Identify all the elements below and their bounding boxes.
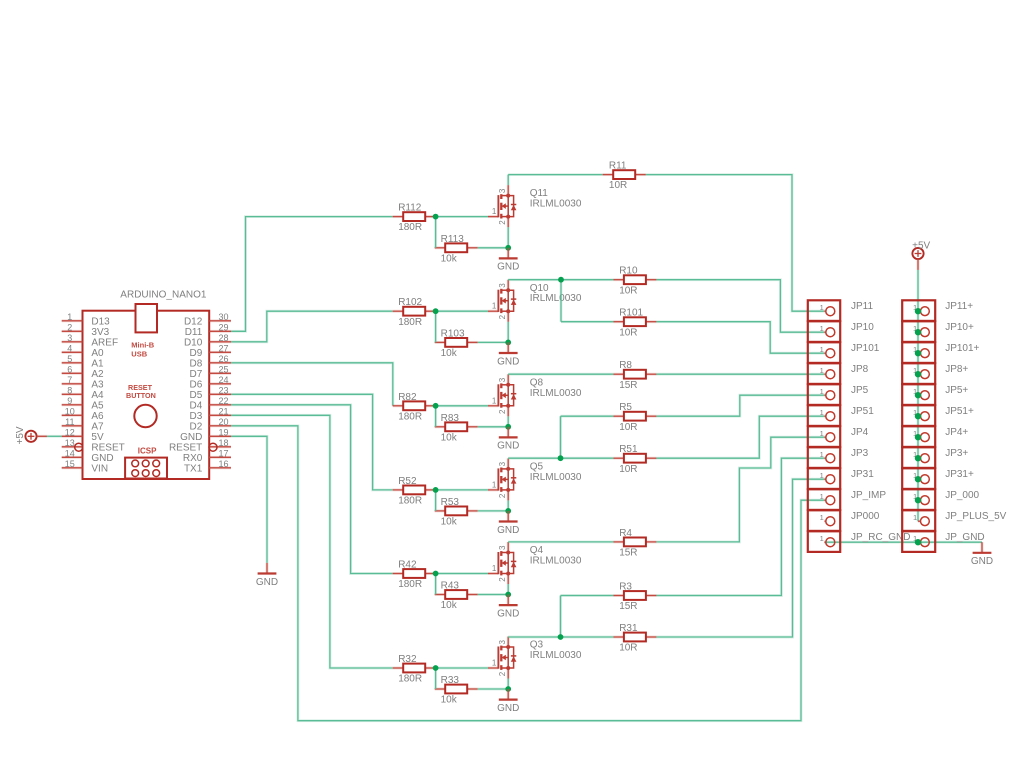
svg-text:D12: D12 xyxy=(184,316,203,327)
svg-text:10R: 10R xyxy=(619,285,637,296)
svg-text:3: 3 xyxy=(498,377,507,382)
svg-text:IRLML0030: IRLML0030 xyxy=(530,650,582,661)
svg-text:11: 11 xyxy=(65,417,74,427)
svg-text:R32: R32 xyxy=(398,654,417,665)
svg-text:12: 12 xyxy=(65,427,75,437)
svg-text:16: 16 xyxy=(218,459,228,469)
svg-text:20: 20 xyxy=(218,417,228,427)
svg-text:JP101+: JP101+ xyxy=(945,343,979,354)
svg-text:R102: R102 xyxy=(398,297,422,308)
svg-text:R82: R82 xyxy=(398,392,417,403)
svg-text:1: 1 xyxy=(820,471,824,480)
svg-text:8: 8 xyxy=(67,385,72,395)
svg-text:+5V: +5V xyxy=(912,241,930,252)
svg-text:JP_GND: JP_GND xyxy=(945,532,984,543)
svg-text:JP3: JP3 xyxy=(851,448,869,459)
svg-text:A0: A0 xyxy=(91,348,104,359)
svg-text:D6: D6 xyxy=(190,379,203,390)
svg-text:GND: GND xyxy=(497,356,519,367)
svg-text:R112: R112 xyxy=(398,203,422,214)
svg-text:180R: 180R xyxy=(398,674,422,685)
svg-text:15: 15 xyxy=(65,459,75,469)
svg-text:JP5+: JP5+ xyxy=(945,385,968,396)
svg-text:1: 1 xyxy=(492,659,497,668)
svg-text:Q11: Q11 xyxy=(530,188,549,199)
svg-text:JP4: JP4 xyxy=(851,427,869,438)
svg-text:R103: R103 xyxy=(441,328,465,339)
svg-text:14: 14 xyxy=(65,448,75,458)
svg-text:A2: A2 xyxy=(91,369,104,380)
svg-text:2: 2 xyxy=(498,220,507,225)
svg-text:A1: A1 xyxy=(91,358,104,369)
svg-text:JP31+: JP31+ xyxy=(945,469,974,480)
svg-text:1: 1 xyxy=(820,450,824,459)
svg-text:1: 1 xyxy=(492,396,497,405)
svg-text:25: 25 xyxy=(218,364,228,374)
svg-text:15R: 15R xyxy=(619,380,637,391)
svg-text:3: 3 xyxy=(67,333,72,343)
svg-text:D8: D8 xyxy=(190,358,203,369)
svg-text:R33: R33 xyxy=(441,675,460,686)
svg-text:A3: A3 xyxy=(91,379,104,390)
svg-text:AREF: AREF xyxy=(91,337,118,348)
svg-text:R11: R11 xyxy=(609,161,627,172)
svg-text:+5V: +5V xyxy=(15,426,26,444)
svg-text:GND: GND xyxy=(256,577,278,588)
svg-text:D7: D7 xyxy=(190,369,203,380)
svg-text:TX1: TX1 xyxy=(184,463,203,474)
svg-text:3: 3 xyxy=(498,283,507,288)
svg-text:JP000: JP000 xyxy=(851,511,880,522)
svg-text:10k: 10k xyxy=(441,695,458,706)
svg-text:Q4: Q4 xyxy=(530,545,544,556)
svg-text:A4: A4 xyxy=(91,390,104,401)
svg-text:15R: 15R xyxy=(619,548,637,559)
svg-text:D2: D2 xyxy=(190,421,203,432)
svg-text:2: 2 xyxy=(67,322,72,332)
svg-text:JP10+: JP10+ xyxy=(945,322,974,333)
svg-text:3: 3 xyxy=(498,640,507,645)
svg-text:IRLML0030: IRLML0030 xyxy=(530,472,582,483)
svg-text:JP51+: JP51+ xyxy=(945,406,974,417)
svg-text:D13: D13 xyxy=(91,316,110,327)
svg-text:6: 6 xyxy=(67,364,72,374)
svg-text:R4: R4 xyxy=(619,528,632,539)
svg-text:13: 13 xyxy=(65,438,75,448)
svg-text:RESET: RESET xyxy=(169,442,202,453)
svg-text:24: 24 xyxy=(218,375,228,385)
svg-text:RX0: RX0 xyxy=(183,453,203,464)
svg-text:USB: USB xyxy=(131,349,147,358)
svg-text:JP5: JP5 xyxy=(851,385,869,396)
svg-text:10k: 10k xyxy=(441,348,458,359)
svg-text:18: 18 xyxy=(218,438,228,448)
svg-text:GND: GND xyxy=(180,432,202,443)
svg-text:10R: 10R xyxy=(619,327,637,338)
svg-text:27: 27 xyxy=(218,343,228,353)
svg-text:IRLML0030: IRLML0030 xyxy=(530,388,582,399)
svg-text:JP101: JP101 xyxy=(851,343,880,354)
svg-text:15R: 15R xyxy=(619,601,637,612)
svg-text:1: 1 xyxy=(820,387,824,396)
svg-text:180R: 180R xyxy=(398,579,422,590)
svg-text:2: 2 xyxy=(498,314,507,319)
svg-text:19: 19 xyxy=(218,427,228,437)
svg-text:JP10: JP10 xyxy=(851,322,874,333)
svg-text:D5: D5 xyxy=(190,390,203,401)
svg-text:JP8+: JP8+ xyxy=(945,364,968,375)
svg-text:4: 4 xyxy=(67,343,72,353)
svg-text:D9: D9 xyxy=(190,348,203,359)
svg-text:180R: 180R xyxy=(398,411,422,422)
svg-text:VIN: VIN xyxy=(91,463,108,474)
svg-text:JP51: JP51 xyxy=(851,406,874,417)
svg-text:1: 1 xyxy=(492,564,497,573)
svg-text:3: 3 xyxy=(498,461,507,466)
svg-text:R10: R10 xyxy=(619,266,638,277)
svg-text:1: 1 xyxy=(492,207,497,216)
svg-text:JP31: JP31 xyxy=(851,469,874,480)
svg-text:1: 1 xyxy=(492,302,497,311)
svg-text:Q8: Q8 xyxy=(530,377,544,388)
svg-text:IRLML0030: IRLML0030 xyxy=(530,556,582,567)
svg-text:10R: 10R xyxy=(619,422,637,433)
svg-text:JP3+: JP3+ xyxy=(945,448,968,459)
svg-text:GND: GND xyxy=(971,556,993,567)
svg-text:JP8: JP8 xyxy=(851,364,869,375)
svg-text:7: 7 xyxy=(67,375,72,385)
svg-text:A5: A5 xyxy=(91,400,104,411)
svg-text:180R: 180R xyxy=(398,496,422,507)
svg-text:R42: R42 xyxy=(398,560,417,571)
svg-text:3: 3 xyxy=(498,545,507,550)
svg-text:D4: D4 xyxy=(190,400,203,411)
svg-text:180R: 180R xyxy=(398,317,422,328)
svg-text:21: 21 xyxy=(218,406,228,416)
svg-text:10k: 10k xyxy=(441,517,458,528)
svg-text:1: 1 xyxy=(820,408,824,417)
svg-text:5: 5 xyxy=(67,354,72,364)
svg-text:1: 1 xyxy=(913,513,917,522)
svg-text:1: 1 xyxy=(492,480,497,489)
svg-text:26: 26 xyxy=(218,354,228,364)
svg-text:R113: R113 xyxy=(441,234,465,245)
svg-text:ARDUINO_NANO1: ARDUINO_NANO1 xyxy=(120,289,207,300)
svg-text:30: 30 xyxy=(218,312,228,322)
svg-text:R52: R52 xyxy=(398,476,417,487)
svg-text:JP4+: JP4+ xyxy=(945,427,968,438)
svg-text:GND: GND xyxy=(497,441,519,452)
svg-text:1: 1 xyxy=(820,345,824,354)
svg-text:R43: R43 xyxy=(441,581,460,592)
svg-text:1: 1 xyxy=(67,312,72,322)
svg-text:Q10: Q10 xyxy=(530,283,549,294)
svg-text:R101: R101 xyxy=(619,308,643,319)
svg-text:10R: 10R xyxy=(619,464,637,475)
svg-text:1: 1 xyxy=(820,303,824,312)
svg-text:D11: D11 xyxy=(185,327,203,338)
svg-text:JP_IMP: JP_IMP xyxy=(851,490,886,501)
svg-text:GND: GND xyxy=(497,525,519,536)
svg-text:10k: 10k xyxy=(441,253,458,264)
svg-text:Q3: Q3 xyxy=(530,640,544,651)
svg-text:2: 2 xyxy=(498,409,507,414)
svg-text:1: 1 xyxy=(820,513,824,522)
svg-text:JP_000: JP_000 xyxy=(945,490,979,501)
svg-text:5V: 5V xyxy=(91,432,104,443)
svg-text:R5: R5 xyxy=(619,402,632,413)
svg-text:28: 28 xyxy=(218,333,228,343)
svg-text:1: 1 xyxy=(820,324,824,333)
svg-text:9: 9 xyxy=(67,396,72,406)
svg-text:GND: GND xyxy=(497,703,519,714)
svg-text:1: 1 xyxy=(820,429,824,438)
svg-text:R53: R53 xyxy=(441,497,460,508)
svg-text:10k: 10k xyxy=(441,600,458,611)
svg-text:BUTTON: BUTTON xyxy=(126,391,156,400)
svg-text:2: 2 xyxy=(498,493,507,498)
svg-text:3V3: 3V3 xyxy=(91,327,109,338)
svg-text:JP11: JP11 xyxy=(851,301,873,312)
svg-text:3: 3 xyxy=(498,188,507,193)
svg-text:Q5: Q5 xyxy=(530,462,544,473)
svg-text:R8: R8 xyxy=(619,360,632,371)
svg-text:D10: D10 xyxy=(184,337,203,348)
svg-text:A6: A6 xyxy=(91,411,104,422)
svg-text:R51: R51 xyxy=(619,444,638,455)
svg-text:23: 23 xyxy=(218,385,228,395)
svg-text:R31: R31 xyxy=(619,623,638,634)
svg-text:1: 1 xyxy=(820,534,824,543)
svg-text:10k: 10k xyxy=(441,432,458,443)
svg-text:1: 1 xyxy=(820,492,824,501)
svg-text:10R: 10R xyxy=(619,643,637,654)
svg-text:A7: A7 xyxy=(91,421,104,432)
svg-text:29: 29 xyxy=(218,322,228,332)
svg-text:GND: GND xyxy=(497,262,519,273)
svg-text:Mini-B: Mini-B xyxy=(131,340,154,349)
svg-text:ICSP: ICSP xyxy=(138,447,157,456)
svg-text:RESET: RESET xyxy=(91,442,124,453)
svg-text:R3: R3 xyxy=(619,582,632,593)
svg-text:180R: 180R xyxy=(398,222,422,233)
svg-text:17: 17 xyxy=(218,448,228,458)
svg-text:IRLML0030: IRLML0030 xyxy=(530,293,582,304)
svg-text:10: 10 xyxy=(65,406,75,416)
svg-text:GND: GND xyxy=(91,453,113,464)
svg-text:JP11+: JP11+ xyxy=(945,301,973,312)
svg-text:1: 1 xyxy=(820,366,824,375)
svg-text:2: 2 xyxy=(498,671,507,676)
svg-text:GND: GND xyxy=(497,608,519,619)
svg-text:JP_PLUS_5V: JP_PLUS_5V xyxy=(945,511,1006,522)
svg-text:R83: R83 xyxy=(441,413,460,424)
svg-text:D3: D3 xyxy=(190,411,203,422)
svg-text:2: 2 xyxy=(498,577,507,582)
svg-text:10R: 10R xyxy=(609,180,627,191)
svg-text:IRLML0030: IRLML0030 xyxy=(530,199,582,210)
svg-text:22: 22 xyxy=(218,396,228,406)
